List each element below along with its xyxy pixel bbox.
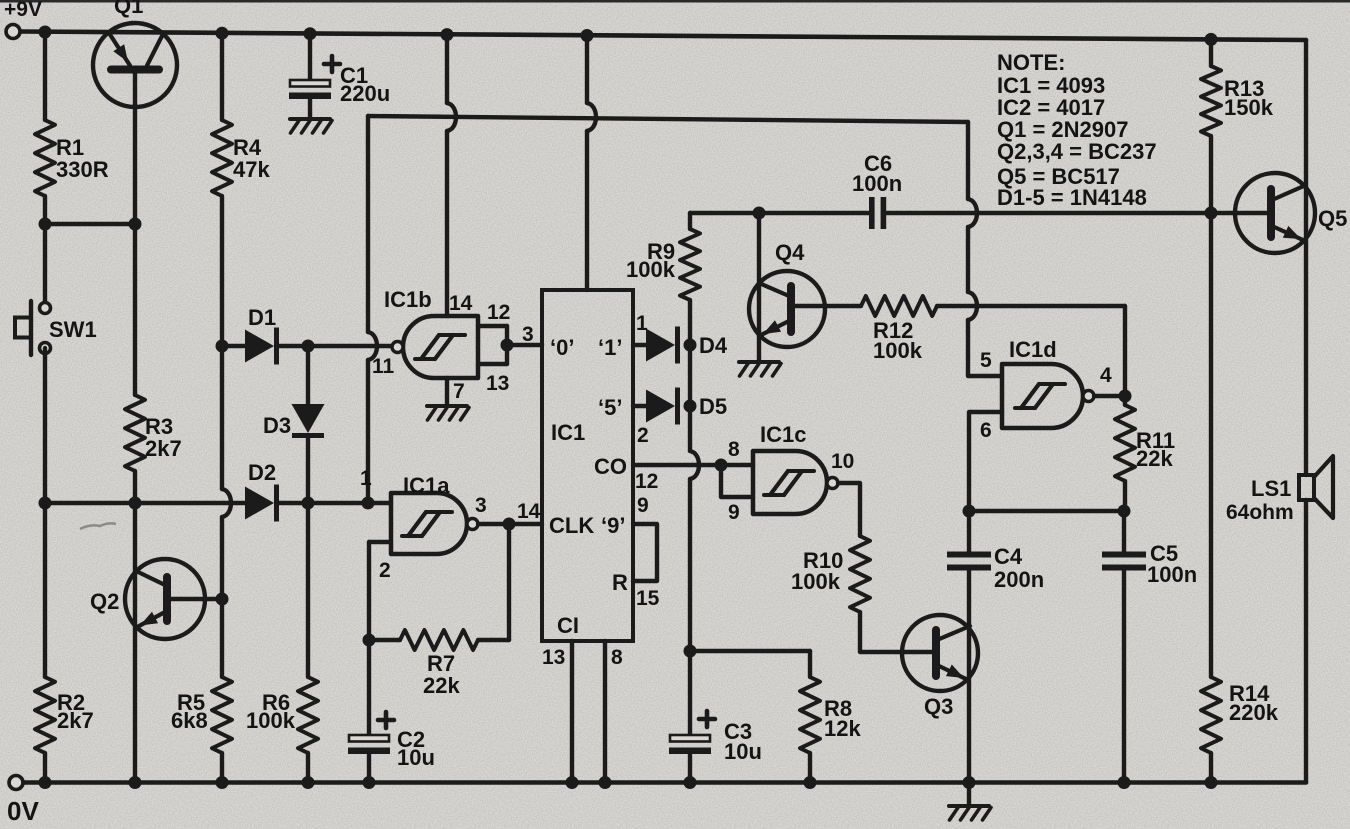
svg-text:5: 5 (980, 349, 992, 372)
speaker LS1 (1299, 475, 1314, 500)
wire IC1b pin7 (445, 378, 449, 406)
svg-text:100k: 100k (791, 569, 841, 594)
svg-text:Q2: Q2 (90, 589, 119, 614)
node 0V-R6 (302, 776, 315, 789)
gate IC1d bubble (1083, 391, 1094, 402)
wire C4-C5 link (969, 509, 1124, 513)
node rail-R1 (39, 26, 52, 39)
svg-text:10u: 10u (397, 745, 435, 770)
capacitor C4 (967, 511, 971, 552)
svg-text:IC1: IC1 (551, 420, 585, 445)
svg-text:D3: D3 (263, 413, 291, 438)
svg-text:D4: D4 (699, 333, 728, 358)
svg-text:2: 2 (637, 424, 649, 447)
node R4-D1 (216, 340, 229, 353)
wire x969 mid (966, 227, 970, 292)
IC IC1 box (542, 290, 633, 641)
capacitor C3 (670, 735, 710, 742)
ground under Q4 (739, 360, 779, 364)
node rail-C1 (304, 27, 317, 40)
gate IC1d hysteresis (1015, 406, 1035, 410)
gate IC1c bubble (827, 478, 838, 489)
node rail-IC2supply (581, 29, 594, 42)
transistor Q3 (902, 615, 978, 691)
wire '1' out (633, 343, 646, 347)
wire Q1 base lead (133, 70, 137, 225)
wire IC1b input stubs (478, 324, 507, 328)
wire R4 top (220, 33, 224, 120)
node 0V-C2 (363, 776, 376, 789)
wire net-K horizontal (368, 116, 968, 122)
node 0V-pin13 (566, 776, 579, 789)
transistor Q1 (93, 23, 177, 107)
resistor R10 (850, 536, 870, 612)
wire CO out (633, 463, 721, 467)
node C6-Q4 (753, 207, 766, 220)
svg-text:‘5’: ‘5’ (598, 395, 622, 420)
gate IC1a bubble (467, 519, 478, 530)
node C4 top (963, 505, 976, 518)
wire R13 top (1209, 39, 1213, 66)
svg-text:150k: 150k (1224, 95, 1274, 120)
gate IC1a hysteresis (402, 534, 422, 538)
wire x222 down lower (220, 517, 224, 599)
resistor R9 (680, 229, 700, 300)
svg-text:3: 3 (475, 494, 487, 517)
node out-d (1119, 390, 1132, 403)
node CO (715, 459, 728, 472)
gate IC1b bubble (392, 342, 403, 353)
svg-text:CLK: CLK (549, 513, 594, 538)
resistor R14 (1201, 677, 1221, 753)
wire IC1c pin8 (721, 463, 753, 467)
hop x222 over D2 wire (222, 489, 231, 517)
diode D1 (245, 330, 274, 363)
svg-text:13: 13 (542, 646, 565, 669)
node R7-C2 (363, 634, 376, 647)
wire IC1d out (1094, 394, 1125, 398)
wire R1 top (43, 32, 47, 120)
wire C3 bottom (688, 755, 692, 783)
node 0V-Q2e (129, 776, 142, 789)
ground below Q3 (967, 782, 971, 806)
node rail-R4 (216, 27, 229, 40)
svg-text:12k: 12k (824, 716, 861, 741)
wire R2 bottom (43, 753, 47, 782)
svg-text:13: 13 (486, 372, 509, 395)
svg-text:100k: 100k (873, 338, 923, 363)
svg-text:8: 8 (611, 646, 623, 669)
resistor R2 (35, 677, 55, 753)
svg-text:9: 9 (637, 494, 649, 517)
wire C3 top (688, 651, 692, 735)
wire R12 to corner (937, 304, 1125, 308)
wire C3-R8 link (690, 649, 810, 653)
resistor R5 (212, 677, 232, 753)
capacitor C6 (869, 197, 875, 229)
resistor R1 (35, 120, 55, 196)
wire Q2 collector (133, 503, 137, 783)
wire netK corner down (966, 122, 970, 199)
node D3-D2 (302, 497, 315, 510)
wire R9 top corner (688, 213, 692, 229)
wire R14 top (1209, 213, 1213, 677)
wire R14 bottom (1209, 753, 1213, 782)
wire C6 right (886, 211, 1211, 215)
svg-text:3: 3 (522, 323, 534, 346)
svg-text:IC1a: IC1a (403, 473, 450, 498)
resistor R6 (298, 677, 318, 753)
svg-text:6k8: 6k8 (171, 708, 208, 733)
svg-text:200n: 200n (994, 567, 1044, 592)
node 0V-R2 (39, 776, 52, 789)
svg-text:D5: D5 (699, 394, 727, 419)
hop x969 over C6 wire (968, 199, 977, 227)
wire C2 bottom (367, 755, 371, 783)
svg-text:‘1’: ‘1’ (598, 335, 622, 360)
capacitor C1 (290, 80, 330, 87)
svg-text:12: 12 (635, 470, 658, 493)
svg-text:‘0’: ‘0’ (550, 335, 574, 360)
wire IC1b inputs to '0' (507, 343, 542, 347)
node Q5 base (1205, 207, 1218, 220)
wire LS1 bottom (1304, 500, 1308, 782)
node 0V-C5 (1118, 776, 1131, 789)
wire +9V rail (20, 32, 1306, 41)
svg-text:14: 14 (449, 292, 473, 315)
svg-text:‘9’: ‘9’ (601, 513, 625, 538)
svg-text:Q2,3,4 = BC237: Q2,3,4 = BC237 (997, 139, 1157, 164)
wire D1 anode (222, 344, 245, 348)
wire R9top-C6 (690, 211, 869, 215)
resistor R7 (400, 630, 478, 650)
gate IC1b hysteresis (415, 357, 435, 361)
node 0V-R8 (804, 776, 817, 789)
wire x690 D4-D5 (688, 345, 692, 406)
wire x222 down upper (220, 346, 224, 489)
node x690-C3 (684, 645, 697, 658)
svg-text:100n: 100n (1147, 562, 1197, 587)
label C3 plus (699, 717, 715, 722)
wire IC1a pin2 (369, 540, 391, 544)
node 0V-Q3e (963, 776, 976, 789)
wire x690 down lower (688, 479, 692, 651)
hop x368 over D1 wire (368, 332, 377, 360)
node R3-D2wire (129, 497, 142, 510)
gate IC1d body (1002, 364, 1083, 428)
smudge artifact (80, 523, 116, 529)
svg-text:10u: 10u (724, 739, 762, 764)
gate IC1c body (753, 451, 827, 514)
gate IC1a body (391, 493, 467, 554)
transistor Q2 (125, 559, 205, 639)
transistor Q4 (749, 271, 825, 347)
wire Q4 collector vertical (757, 213, 761, 362)
svg-text:IC1c: IC1c (760, 422, 806, 447)
wire D2 cathode to IC1a pin1 (277, 501, 391, 505)
svg-text:CO: CO (594, 454, 627, 479)
svg-text:D1: D1 (248, 305, 276, 330)
wire '5' out (633, 404, 646, 408)
wire C1 top (308, 34, 312, 80)
wire x368 upper (366, 116, 370, 332)
node 0V-C3 (684, 776, 697, 789)
diode D3 (306, 346, 310, 404)
terminal +9V (6, 25, 20, 39)
wire SW1-nodeB (43, 348, 47, 503)
wire IC1c out (838, 483, 860, 536)
node D1-D3 (302, 340, 315, 353)
wire '9'-R bracket (633, 524, 657, 581)
svg-text:8: 8 (728, 438, 740, 461)
resistor R3 (125, 395, 145, 471)
capacitor C5 (1122, 511, 1126, 552)
wire IC1a out (478, 522, 542, 526)
scan edge top (0, 0, 1350, 3)
svg-text:R: R (612, 570, 628, 595)
svg-text:0V: 0V (7, 796, 39, 826)
svg-text:4: 4 (1100, 364, 1112, 387)
wire nodeB-R2 (43, 503, 47, 677)
svg-text:6: 6 (980, 419, 992, 442)
node B (39, 497, 52, 510)
terminal 0V (9, 776, 23, 790)
svg-text:Q5: Q5 (1318, 206, 1347, 231)
diode D4 (646, 329, 675, 362)
wire R13 bottom (1209, 136, 1213, 213)
diode D5 (646, 390, 675, 423)
svg-text:100k: 100k (626, 257, 676, 282)
wire R6 bottom (306, 753, 310, 782)
wire nodeB-D2 (45, 501, 245, 505)
svg-text:330R: 330R (56, 157, 109, 182)
svg-text:NOTE:: NOTE: (997, 50, 1065, 75)
label C2 plus (378, 718, 394, 723)
svg-text:100k: 100k (246, 708, 296, 733)
svg-text:12: 12 (487, 301, 510, 324)
node D5-x690 (684, 400, 697, 413)
capacitor C2 (349, 735, 389, 742)
svg-text:CI: CI (557, 613, 579, 638)
svg-text:14: 14 (517, 500, 541, 523)
label C1 plus (324, 62, 340, 67)
wire R10 bottom (860, 612, 934, 652)
gate IC1c hysteresis (764, 493, 784, 497)
svg-text:220k: 220k (1229, 700, 1279, 725)
node 0V-R5 (216, 776, 229, 789)
transistor Q5 (1235, 173, 1315, 253)
node rail-pin14 (441, 28, 454, 41)
node 0V-pin8 (599, 776, 612, 789)
svg-text:D2: D2 (248, 460, 276, 485)
wire R8 bottom (808, 753, 812, 782)
svg-text:D1-5 = 1N4148: D1-5 = 1N4148 (997, 185, 1147, 210)
node D2-x368 (362, 497, 375, 510)
svg-text:SW1: SW1 (49, 317, 97, 342)
wire x690 down upper (688, 406, 692, 451)
svg-text:C4: C4 (994, 544, 1023, 569)
ground under C1 (290, 117, 330, 121)
diode D2 (245, 487, 274, 520)
node out-a (503, 518, 516, 531)
resistor R12 (861, 296, 937, 316)
hop x969 over R12 wire (968, 292, 977, 320)
wire R1-SW1 (43, 196, 47, 308)
resistor R13 (1201, 66, 1221, 136)
resistor R11 (1123, 396, 1127, 405)
node D4-x690 (684, 339, 697, 352)
svg-text:22k: 22k (1136, 446, 1173, 471)
wire C2 top (367, 640, 371, 735)
wire IC2 vdd lower (585, 131, 589, 290)
wire pin8 down (603, 641, 607, 782)
svg-text:7: 7 (453, 380, 465, 403)
svg-text:100n: 100n (852, 171, 902, 196)
svg-text:22k: 22k (423, 673, 460, 698)
wire R5 bottom (220, 753, 224, 782)
wire R8 top (808, 651, 812, 677)
wire pin6 link (969, 412, 1002, 511)
wire Q3 collector-emitter vertical (967, 571, 971, 783)
svg-text:Q1: Q1 (114, 0, 143, 18)
wire pin14 lower (445, 131, 449, 316)
node 0V-R14 (1205, 776, 1218, 789)
wire pin14 upper (445, 35, 449, 103)
wire Q5 base (1211, 211, 1271, 215)
svg-text:IC1d: IC1d (1009, 337, 1057, 362)
svg-text:1: 1 (360, 467, 372, 490)
svg-text:Q3: Q3 (924, 694, 953, 719)
resistor R4 (212, 120, 232, 196)
wire D1 cathode (277, 344, 398, 348)
svg-text:10: 10 (831, 450, 854, 473)
wire R9 bottom (688, 300, 692, 345)
svg-text:15: 15 (636, 587, 660, 610)
svg-text:9: 9 (728, 501, 740, 524)
wire R7 right stub (478, 638, 509, 642)
node R1 bottom (39, 218, 52, 231)
wire x969 to pin5 (968, 320, 1002, 376)
hop x587 over netK (587, 103, 596, 131)
wire Q2 base (167, 597, 222, 601)
wire IC2 vdd upper (585, 36, 589, 104)
svg-text:+9V: +9V (4, 0, 42, 21)
node R11-C5 (1118, 505, 1131, 518)
wire pin13 down (570, 641, 574, 782)
wire R3 top (133, 224, 137, 395)
wire Q4 base to R12 (791, 304, 861, 308)
wire x368 lower (366, 360, 370, 503)
wire R6 top (306, 503, 310, 677)
svg-text:LS1: LS1 (1251, 476, 1291, 501)
hop x447 over netK (447, 103, 456, 131)
svg-text:2k7: 2k7 (57, 708, 94, 733)
svg-text:2: 2 (379, 559, 391, 582)
svg-text:Q4: Q4 (775, 240, 805, 265)
svg-text:2k7: 2k7 (145, 436, 182, 461)
gate IC1b body (403, 316, 478, 378)
svg-text:64ohm: 64ohm (1226, 501, 1294, 524)
wire R7 left stub (369, 638, 400, 642)
resistor R8 (800, 677, 820, 753)
svg-text:220u: 220u (340, 81, 390, 106)
wire R5 top (220, 599, 224, 677)
wire node-A to Q1 base (45, 222, 135, 226)
hop x690 over CO wire (690, 451, 699, 479)
wire corner down to out-d (1123, 306, 1127, 396)
node IC1b inputs (501, 339, 514, 352)
wire 0V rail (24, 780, 1306, 785)
svg-text:47k: 47k (233, 157, 270, 182)
wire C1-gnd (308, 100, 312, 120)
wire IC1c pin9 bracket (721, 465, 753, 497)
svg-text:IC1b: IC1b (384, 287, 432, 312)
switch SW1 (40, 303, 51, 314)
wire R3 bottom (133, 471, 137, 503)
node Q2base-R5 (216, 593, 229, 606)
node Q1-R3 (129, 218, 142, 231)
svg-text:11: 11 (372, 355, 395, 378)
wire Q5 right vertical (1304, 40, 1308, 475)
wire feedback down (507, 524, 511, 640)
node rail-R13 (1205, 33, 1218, 46)
wire R4-D1 (220, 196, 224, 346)
ground under IC1b (427, 404, 467, 408)
